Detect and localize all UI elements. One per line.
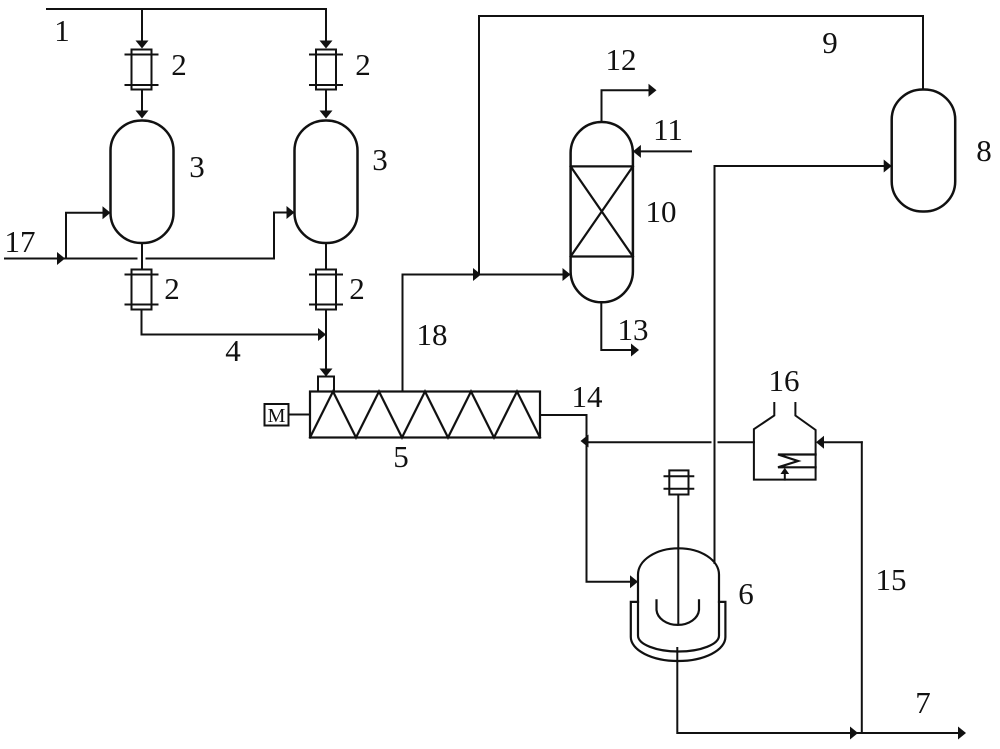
arrow into vessel 3 right top — [320, 111, 333, 119]
arrow stream 11 into column — [633, 145, 641, 158]
svg-text:1: 1 — [54, 13, 70, 48]
vessel 3 right — [295, 121, 358, 244]
arrow into vessel 3 left top — [136, 111, 149, 119]
agitator shaft — [677, 495, 679, 625]
wire: stream 18 riser and column feed — [403, 275, 474, 392]
wire: vapor line reactor to vessel 8 — [715, 166, 884, 563]
condenser 16 coil — [778, 455, 816, 480]
wire: drop to left filter — [141, 9, 143, 41]
arrow into vessel 3 right side — [287, 206, 295, 219]
vessel 8 — [892, 90, 956, 212]
motor M box — [265, 404, 311, 426]
wire: right filter to vessel 3 — [325, 90, 327, 112]
arrow into top-left filter — [136, 41, 149, 49]
wire: right vessel bottom nozzle — [325, 243, 327, 270]
condenser 16 body — [754, 403, 816, 480]
arrow before junction with 15 — [850, 727, 858, 740]
vessel 3 left — [111, 121, 174, 244]
wire: stream 17 main line — [5, 258, 274, 260]
wire: condenser outlet to stream 14 — [589, 441, 754, 443]
filter 2 bottom-right — [310, 270, 342, 310]
conveyor inlet box — [318, 377, 334, 392]
screw conveyor 5 flights — [310, 392, 540, 438]
svg-text:13: 13 — [618, 312, 649, 347]
wire: feed line to column — [481, 274, 563, 276]
reactor 6 jacket — [631, 602, 726, 661]
svg-text:M: M — [268, 405, 286, 427]
arrow into conveyor inlet box — [320, 369, 333, 377]
svg-text:15: 15 — [876, 562, 907, 597]
wire: stream 14 conveyor to reactor — [540, 415, 630, 582]
wire: feed header line 1 — [47, 8, 326, 10]
svg-text:18: 18 — [417, 317, 448, 352]
svg-text:5: 5 — [393, 439, 409, 474]
svg-text:3: 3 — [372, 142, 388, 177]
wire: right filter down to conveyor — [325, 310, 327, 370]
svg-text:11: 11 — [653, 112, 683, 147]
svg-text:12: 12 — [606, 42, 637, 77]
svg-text:10: 10 — [646, 194, 677, 229]
filter 2 top-left — [126, 50, 158, 90]
arrow into vessel 8 — [884, 160, 892, 173]
screw conveyor 5 body — [310, 392, 540, 438]
svg-text:16: 16 — [769, 363, 800, 398]
svg-text:4: 4 — [225, 333, 241, 368]
svg-text:7: 7 — [915, 685, 931, 720]
wire: stream 9 overhead — [479, 16, 923, 275]
arrow into vessel 3 left side — [103, 206, 111, 219]
svg-text:9: 9 — [822, 25, 838, 60]
svg-text:8: 8 — [976, 133, 992, 168]
filter 2 bottom-left — [126, 270, 158, 310]
wire: drop to right filter — [325, 9, 327, 41]
agitator impeller — [657, 600, 700, 625]
svg-text:14: 14 — [572, 379, 604, 414]
wire: riser to right vessel inlet — [274, 213, 287, 259]
svg-text:2: 2 — [171, 47, 187, 82]
arrow on line 17 — [57, 252, 65, 265]
arrow into top-right filter — [320, 41, 333, 49]
column 10 shell — [571, 122, 633, 302]
arrow into column 10 — [563, 268, 571, 281]
wire: stream 4 — [142, 310, 319, 335]
wire: condenser inlet from line 15 — [824, 441, 862, 443]
wire: branch up to left vessel inlet — [66, 213, 103, 259]
svg-text:17: 17 — [5, 224, 36, 259]
svg-text:3: 3 — [189, 149, 205, 184]
arrow condensate joins stream 14 — [581, 435, 589, 448]
svg-text:2: 2 — [349, 271, 365, 306]
arrow stream 7 outlet — [958, 727, 966, 740]
arrow into reactor 6 — [630, 575, 638, 588]
agitator motor on reactor — [665, 470, 694, 494]
arrow stream 13 — [631, 344, 639, 357]
svg-text:6: 6 — [738, 576, 754, 611]
svg-text:2: 2 — [355, 47, 371, 82]
filter 2 top-right — [310, 50, 342, 90]
svg-text:2: 2 — [164, 271, 180, 306]
arrow junction on line 4 — [318, 328, 326, 341]
wire: stream 12 overhead outlet — [602, 90, 649, 122]
arrow junction on feed line — [473, 268, 481, 281]
wire: left vessel bottom nozzle — [141, 243, 143, 270]
wire: stream 11 inlet — [641, 150, 691, 152]
arrow into condenser right side — [816, 436, 824, 449]
wire: left filter to vessel 3 — [141, 90, 143, 112]
column 10 packing — [571, 166, 633, 256]
wire: stream 13 bottoms outlet — [601, 302, 631, 350]
reactor 6 vessel — [638, 548, 719, 651]
wire: stream 15 — [861, 442, 863, 733]
wire: reactor bottom outlet / stream 7 — [677, 648, 958, 733]
arrow stream 12 — [649, 84, 657, 97]
